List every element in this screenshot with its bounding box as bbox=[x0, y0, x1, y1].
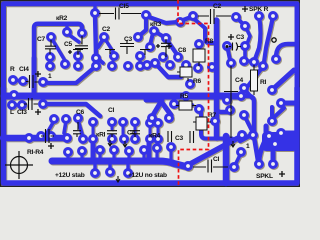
svg-text:CI5: CI5 bbox=[119, 3, 129, 10]
svg-text:SPKL: SPKL bbox=[256, 173, 273, 180]
svg-text:1: 1 bbox=[246, 143, 250, 150]
svg-text:CI: CI bbox=[213, 156, 220, 163]
svg-text:CI3: CI3 bbox=[17, 109, 27, 116]
svg-text:R5: R5 bbox=[180, 93, 189, 100]
svg-text:CI: CI bbox=[108, 107, 115, 114]
svg-text:SPK R: SPK R bbox=[249, 6, 269, 13]
svg-text:C2: C2 bbox=[213, 3, 222, 10]
svg-text:CI4: CI4 bbox=[19, 66, 29, 73]
svg-text:C3: C3 bbox=[236, 34, 245, 41]
svg-text:кR2: кR2 bbox=[56, 15, 68, 22]
svg-text:C6: C6 bbox=[76, 109, 85, 116]
svg-text:L: L bbox=[10, 109, 14, 116]
svg-text:C3: C3 bbox=[175, 135, 184, 142]
svg-text:RI: RI bbox=[260, 79, 267, 86]
svg-text:C3: C3 bbox=[124, 36, 133, 43]
svg-text:кR4: кR4 bbox=[149, 133, 161, 140]
svg-text:R6: R6 bbox=[193, 78, 202, 85]
svg-text:+12U stab: +12U stab bbox=[55, 172, 85, 179]
svg-text:C7: C7 bbox=[37, 36, 46, 43]
svg-text:RI-R4: RI-R4 bbox=[27, 149, 44, 156]
svg-text:C4: C4 bbox=[235, 77, 244, 84]
svg-text:кR3: кR3 bbox=[150, 21, 162, 28]
svg-text:R: R bbox=[10, 66, 15, 73]
svg-text:+12U no stab: +12U no stab bbox=[128, 172, 167, 179]
svg-text:C5: C5 bbox=[64, 41, 73, 48]
svg-text:1: 1 bbox=[48, 73, 52, 80]
svg-text:C8: C8 bbox=[178, 47, 187, 54]
svg-text:кRI: кRI bbox=[96, 132, 106, 139]
svg-text:C4: C4 bbox=[127, 130, 136, 137]
svg-text:C2: C2 bbox=[102, 26, 111, 33]
